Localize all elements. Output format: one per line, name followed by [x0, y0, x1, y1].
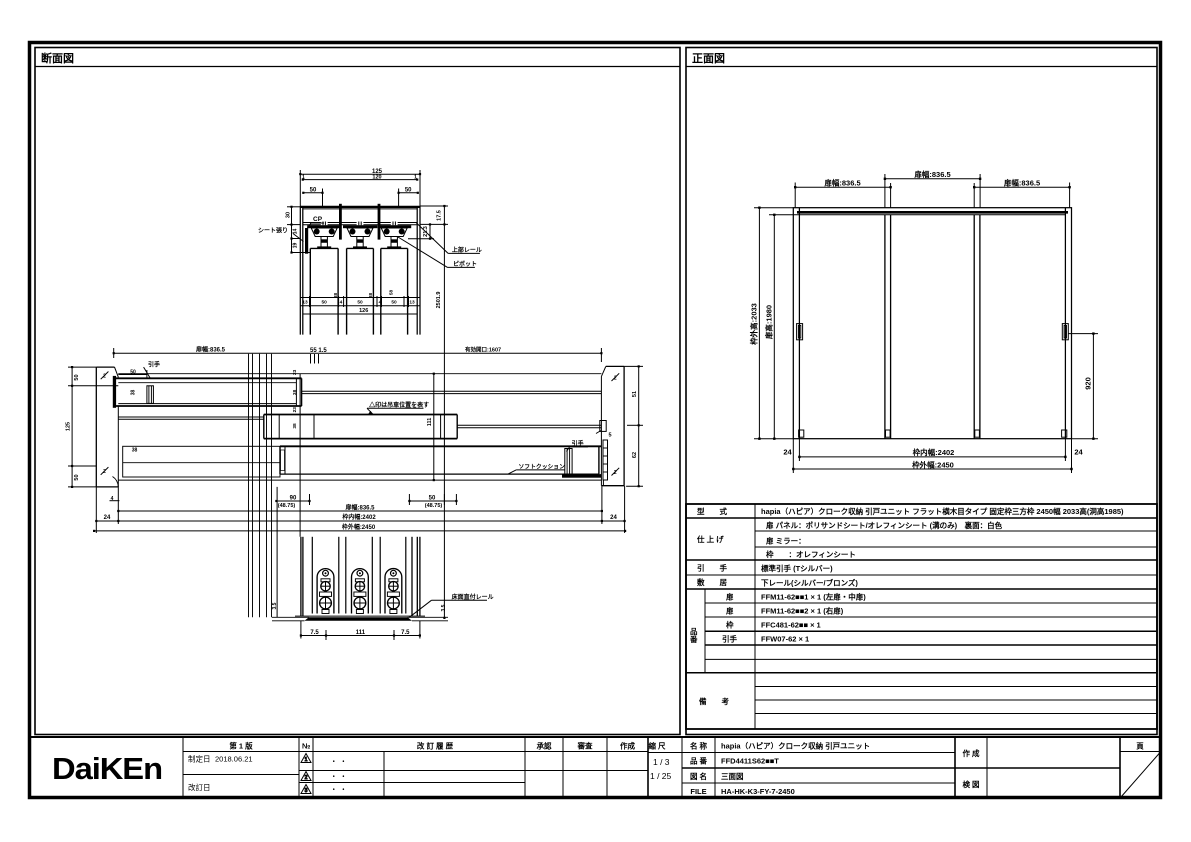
svg-text:2501.9: 2501.9 [436, 292, 442, 309]
jamb marker 2 top left [101, 372, 109, 380]
wall lines right [411, 537, 413, 616]
svg-text:ピボット: ピボット [453, 260, 477, 268]
svg-text:CP: CP [313, 216, 323, 223]
hanger 3 [377, 222, 411, 249]
svg-text:№: № [302, 742, 310, 751]
svg-text:枠内幅:2402: 枠内幅:2402 [342, 513, 376, 521]
svg-text:FFC481-62■■ × 1: FFC481-62■■ × 1 [761, 621, 821, 630]
rail height dim right 3.5 [408, 616, 448, 618]
svg-text:2: 2 [103, 374, 106, 380]
svg-text:FFM11-62■■1 × 1 (左扉・中扉): FFM11-62■■1 × 1 (左扉・中扉) [761, 592, 866, 602]
svg-text:50: 50 [74, 474, 80, 480]
svg-text:三面図: 三面図 [721, 772, 744, 781]
revision triangles [301, 754, 311, 795]
svg-text:正面図: 正面図 [692, 51, 725, 65]
svg-text:・ ・: ・ ・ [330, 785, 347, 794]
svg-text:審査: 審査 [577, 741, 593, 751]
door panel 2 bottom section [345, 537, 347, 614]
plan top dim line [68, 348, 601, 487]
bottom guide assembly 2 [352, 569, 369, 614]
svg-text:23: 23 [292, 369, 298, 375]
svg-text:改 訂 履 歴: 改 訂 履 歴 [417, 741, 454, 751]
svg-text:第 1 版: 第 1 版 [229, 741, 253, 751]
svg-text:50: 50 [130, 369, 136, 375]
door 1 plan [113, 376, 116, 408]
wall line top [118, 373, 601, 375]
svg-text:頁: 頁 [1136, 742, 1144, 751]
chain ticks [309, 296, 311, 307]
svg-text:24: 24 [1074, 448, 1083, 457]
door panel 3 bottom section [379, 537, 381, 614]
svg-text:55 1.5: 55 1.5 [310, 348, 327, 354]
svg-text:扉: 扉 [725, 606, 734, 616]
svg-text:30: 30 [286, 212, 292, 218]
hanger mark triangle door2 [368, 411, 373, 415]
handle left [797, 324, 803, 340]
rail end bracket [600, 421, 606, 432]
svg-text:検 図: 検 図 [962, 779, 980, 789]
spec row lines [686, 517, 1157, 519]
svg-text:HA-HK-K3-FY-7-2450: HA-HK-K3-FY-7-2450 [721, 787, 795, 796]
svg-text:14: 14 [293, 229, 299, 235]
svg-text:シート張り: シート張り [258, 227, 288, 235]
svg-text:126: 126 [359, 308, 368, 314]
dim 17.5 line right [443, 206, 445, 618]
soft-close strip in jamb pocket [603, 440, 608, 480]
svg-text:5: 5 [609, 433, 612, 439]
hanger 1 [307, 222, 341, 249]
svg-text:標準引手 (Tシルバー): 標準引手 (Tシルバー) [761, 563, 833, 573]
扉幅 dim [118, 510, 602, 512]
rail interior post 1 [339, 204, 342, 240]
rail line 2 right [457, 424, 601, 426]
svg-text:111: 111 [427, 418, 433, 427]
svg-text:・ ・: ・ ・ [330, 757, 347, 766]
bottom guide mullion left [886, 430, 891, 437]
svg-text:90: 90 [290, 496, 297, 502]
dim end dots [758, 178, 1094, 471]
svg-text:名 称: 名 称 [690, 741, 708, 751]
dim 扉幅 right line [974, 186, 1069, 188]
4 dim small [110, 500, 120, 502]
bottom guide mullion right [975, 430, 980, 437]
svg-text:50: 50 [357, 300, 363, 306]
55/1.5 ticks [310, 354, 312, 364]
plan view texts [66, 345, 639, 531]
svg-text:2018.06.21: 2018.06.21 [215, 755, 253, 764]
svg-text:38: 38 [132, 448, 138, 454]
svg-text:品 番: 品 番 [690, 756, 708, 766]
枠外幅 dim [94, 530, 625, 532]
svg-text:1 / 3: 1 / 3 [653, 757, 670, 767]
dim 125 line [287, 170, 448, 618]
ピボット leader line [448, 266, 475, 268]
svg-text:ソフトクッション: ソフトクッション [519, 463, 566, 471]
svg-text:(48.75): (48.75) [425, 503, 443, 509]
left vertical dim 50/125/50 [71, 367, 73, 487]
spec table label column divider [754, 504, 756, 729]
title block header row line [183, 751, 648, 753]
svg-text:2: 2 [305, 775, 308, 781]
svg-text:FILE: FILE [690, 787, 706, 796]
wall face projection line [299, 374, 301, 537]
DAIKEN logo [52, 751, 162, 786]
dim 21.3 line right [429, 224, 431, 238]
svg-text:1: 1 [302, 174, 305, 180]
svg-text:7.5: 7.5 [310, 630, 319, 636]
svg-text:1: 1 [305, 757, 308, 763]
bottom guide left [799, 430, 804, 437]
svg-text:920: 920 [1083, 377, 1092, 390]
dim 扉幅 middle line [754, 174, 1098, 473]
right jamb plan [623, 366, 625, 485]
revision rows [299, 770, 648, 772]
svg-text:型 式: 型 式 [697, 506, 727, 516]
jamb marker 2 bottom left [101, 467, 109, 475]
svg-text:扉: 扉 [725, 592, 734, 602]
svg-text:FFM11-62■■2 × 1 (右扉): FFM11-62■■2 × 1 (右扉) [761, 606, 844, 616]
bottom guide assembly 3 [385, 569, 402, 614]
dim 920 line [1092, 334, 1094, 439]
small chain dims [302, 290, 415, 314]
title block outer [29, 737, 1161, 798]
bottom section texts [272, 593, 494, 636]
door 2 plan [264, 414, 457, 416]
hanging door panels (section) [310, 248, 407, 334]
svg-text:50: 50 [429, 496, 436, 502]
svg-text:7.5: 7.5 [401, 630, 410, 636]
svg-text:有効開口:1607: 有効開口:1607 [465, 346, 501, 354]
svg-text:敷 居: 敷 居 [697, 577, 727, 587]
svg-text:111: 111 [356, 630, 366, 636]
spec table outer [686, 504, 1157, 729]
handle right [1062, 324, 1068, 340]
50 dim [409, 500, 456, 502]
シート張り leader [293, 234, 304, 242]
page diagonal [1121, 753, 1160, 798]
svg-text:番: 番 [689, 634, 698, 644]
rail interior post 2 [378, 204, 381, 240]
svg-text:作成: 作成 [620, 741, 635, 751]
dim 枠外幅 2450 line [793, 468, 1071, 470]
wall line bottom [118, 479, 601, 481]
left view panel border [35, 48, 680, 735]
svg-text:扉 ミラー：: 扉 ミラー： [765, 536, 806, 546]
svg-text:FFW07-62 × 1: FFW07-62 × 1 [761, 635, 809, 644]
svg-text:2: 2 [614, 375, 617, 381]
svg-text:58: 58 [388, 290, 394, 296]
svg-text:引手: 引手 [572, 439, 584, 447]
dim 120 line [303, 179, 417, 181]
svg-text:扉幅:836.5: 扉幅:836.5 [195, 345, 226, 353]
svg-text:図 名: 図 名 [690, 771, 707, 781]
right panel header line [686, 66, 1157, 68]
svg-text:23: 23 [292, 407, 298, 413]
svg-text:125: 125 [66, 422, 72, 431]
small 50 dim [118, 374, 147, 376]
bottom guide assembly 1 [317, 569, 334, 614]
door frame inner jamb lines [798, 208, 800, 439]
svg-text:枠外幅:2450: 枠外幅:2450 [342, 523, 376, 531]
svg-text:24: 24 [783, 448, 792, 457]
rail housing right wall [416, 206, 418, 335]
svg-text:38: 38 [292, 423, 298, 429]
rail housing left wall [299, 206, 301, 335]
door 3 plan [280, 445, 601, 447]
dim 扉幅 left line [795, 186, 890, 188]
spec 品番 sub column [704, 589, 706, 673]
svg-text:19: 19 [293, 243, 299, 249]
front view dim texts [749, 169, 1093, 470]
svg-text:扉幅:836.5: 扉幅:836.5 [344, 504, 375, 512]
CP label [306, 223, 325, 231]
dim 扉高 1980 line [773, 215, 775, 439]
svg-text:枠: 枠 [725, 620, 734, 630]
引手 leader left [144, 367, 151, 378]
mullion left pair [884, 215, 886, 439]
svg-text:△印は吊車位置を表す: △印は吊車位置を表す [368, 401, 429, 409]
svg-text:hapia（ハピア）クローク収納 引戸ユニット: hapia（ハピア）クローク収納 引戸ユニット [721, 741, 870, 751]
svg-text:扉高:1980: 扉高:1980 [764, 305, 774, 340]
svg-text:改訂日: 改訂日 [188, 782, 211, 792]
svg-text:断面図: 断面図 [41, 51, 74, 65]
svg-text:引 手: 引 手 [697, 563, 727, 573]
svg-text:50: 50 [391, 300, 397, 306]
left panel header line [35, 66, 680, 68]
title block vertical dividers [182, 737, 184, 798]
svg-text:1: 1 [414, 174, 417, 180]
svg-text:枠内幅:2402: 枠内幅:2402 [912, 447, 955, 457]
door frame outer [793, 208, 1071, 439]
svg-text:51: 51 [632, 391, 638, 397]
svg-text:2: 2 [103, 469, 106, 475]
svg-text:4: 4 [340, 300, 343, 306]
dim 111 vertical [433, 374, 435, 480]
svg-text:下レール(シルバー/ブロンズ): 下レール(シルバー/ブロンズ) [761, 578, 858, 588]
right view panel border [686, 48, 1157, 735]
door interruption lines [300, 297, 420, 299]
left dims 30/14/19 line [291, 206, 293, 253]
top rail dark band [797, 211, 1068, 214]
bottom rail [305, 617, 412, 621]
svg-text:3.5: 3.5 [441, 604, 447, 611]
hanger assemblies [307, 222, 411, 249]
svg-text:作 成: 作 成 [962, 748, 980, 758]
hanger 2 [343, 222, 377, 249]
svg-text:50: 50 [322, 300, 328, 306]
door 3 ghost pocket [123, 446, 280, 477]
svg-text:扉幅:836.5: 扉幅:836.5 [913, 169, 950, 179]
jamb marker 2 bottom right [612, 468, 620, 476]
svg-text:17.5: 17.5 [437, 210, 443, 221]
extension verticals [95, 487, 97, 533]
svg-text:13: 13 [409, 300, 415, 306]
svg-text:38: 38 [292, 389, 298, 395]
rail housing top plate [300, 206, 420, 208]
door panel 1 section [310, 247, 338, 249]
left jamb plan [95, 367, 97, 487]
top section texts [258, 169, 482, 314]
right side rows [648, 752, 955, 754]
svg-text:13: 13 [302, 300, 308, 306]
svg-text:制定日: 制定日 [188, 754, 211, 764]
title block texts [188, 741, 1144, 797]
svg-text:24: 24 [610, 515, 617, 521]
svg-text:床面直付レール: 床面直付レール [452, 593, 494, 601]
svg-text:1 / 25: 1 / 25 [650, 771, 672, 781]
svg-text:引手: 引手 [148, 361, 160, 369]
svg-text:50: 50 [74, 374, 80, 380]
枠内幅 dim [96, 520, 624, 522]
床面直付レール leader [431, 599, 487, 601]
bottom guide right [1062, 430, 1067, 437]
dim ticks top section [290, 173, 445, 254]
bottom dim line [301, 621, 420, 640]
rail line 2 left [118, 416, 263, 418]
door panel 3 section [381, 247, 408, 249]
svg-text:扉幅:836.5: 扉幅:836.5 [1003, 178, 1040, 188]
svg-text:備 考: 備 考 [699, 696, 729, 706]
plan bottom dims [94, 486, 625, 618]
svg-text:上部レール: 上部レール [452, 246, 482, 254]
svg-text:62: 62 [632, 452, 638, 458]
90 dim [276, 500, 309, 502]
svg-text:承認: 承認 [537, 741, 552, 751]
svg-text:引手: 引手 [722, 634, 737, 644]
rail line 1 [302, 390, 602, 392]
dim 50 right line [399, 192, 418, 194]
svg-text:50: 50 [310, 187, 317, 193]
svg-text:24: 24 [104, 515, 111, 521]
svg-text:hapia（ハピア）クローク収納 引戸ユニット フラット横木: hapia（ハピア）クローク収納 引戸ユニット フラット横木目タイプ 固定枠三方… [761, 506, 1124, 516]
dim 枠外高 2033 line [758, 208, 760, 439]
jamb marker 2 top right [612, 373, 620, 381]
吊車 label leader [367, 407, 424, 409]
svg-text:DaiKEn: DaiKEn [52, 751, 162, 786]
svg-text:枠 ：オレフィンシート: 枠 ：オレフィンシート [765, 549, 856, 559]
ソフトクッション underline [516, 469, 565, 471]
svg-text:3.5: 3.5 [272, 602, 278, 609]
rail height dim left 3.5 [272, 616, 309, 618]
wall lines left [300, 537, 302, 616]
svg-text:縮 尺: 縮 尺 [648, 741, 666, 751]
door 3 handle plan [565, 449, 572, 475]
svg-text:3: 3 [305, 788, 308, 794]
dim 50 left line [303, 192, 322, 194]
svg-text:枠外高:2033: 枠外高:2033 [749, 303, 759, 346]
svg-text:FFD4411S62■■T: FFD4411S62■■T [721, 757, 779, 766]
上部レール leader line [448, 252, 480, 254]
svg-text:仕 上 げ: 仕 上 げ [696, 534, 724, 544]
rail bottom flanges [303, 223, 417, 225]
projection verticals [249, 354, 301, 618]
floor line [295, 615, 425, 617]
right vertical dim 51/62 [624, 366, 643, 486]
svg-text:扉 パネル：ポリサンドシート/オレフィンシート (溝のみ): 扉 パネル：ポリサンドシート/オレフィンシート (溝のみ) 裏面：白色 [765, 520, 1003, 530]
svg-text:・ ・: ・ ・ [330, 772, 347, 781]
door 1 handle plan [147, 386, 154, 404]
svg-text:扉幅:836.5: 扉幅:836.5 [823, 178, 860, 188]
mullion right pair [973, 215, 975, 439]
door panel 1 bottom section [311, 537, 313, 614]
door 3 bottom thick seal [562, 474, 601, 478]
引手 leader right [570, 446, 588, 448]
svg-text:50: 50 [405, 187, 412, 193]
svg-text:4: 4 [111, 496, 114, 502]
svg-text:(48.75): (48.75) [278, 503, 296, 509]
door panel 2 section [347, 247, 374, 249]
dim 枠内幅 2402 line [799, 456, 1065, 458]
svg-text:2: 2 [614, 470, 617, 476]
CP seal [305, 228, 308, 254]
svg-text:枠外幅:2450: 枠外幅:2450 [911, 460, 954, 470]
svg-text:38: 38 [131, 390, 137, 396]
svg-text:120: 120 [372, 174, 381, 180]
